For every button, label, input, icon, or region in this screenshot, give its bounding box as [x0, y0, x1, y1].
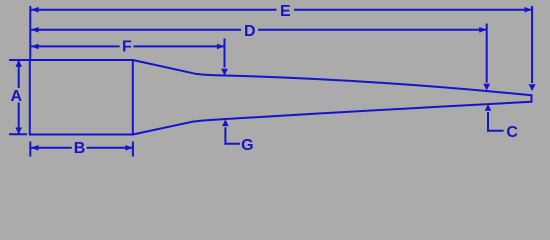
svg-text:D: D: [244, 23, 256, 40]
svg-text:C: C: [506, 124, 518, 141]
svg-text:F: F: [122, 38, 132, 55]
svg-text:A: A: [11, 88, 23, 105]
svg-text:B: B: [74, 140, 86, 157]
svg-text:E: E: [280, 3, 291, 20]
svg-text:G: G: [241, 137, 253, 154]
